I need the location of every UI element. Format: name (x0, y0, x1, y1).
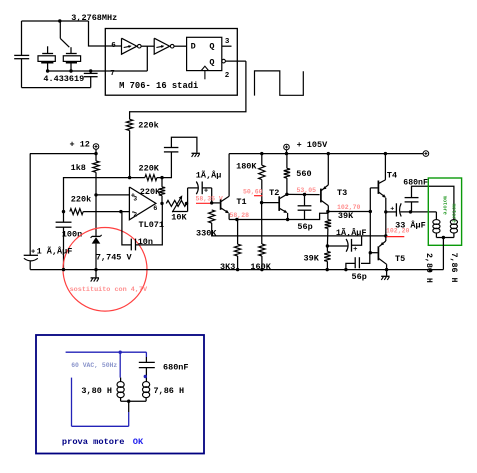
resistor R9 180K (261, 154, 263, 166)
power terminal top right (423, 151, 429, 157)
svg-text:10K: 10K (171, 212, 187, 222)
node - crystal select top node (58, 19, 61, 22)
transistor T5 PNP (385, 236, 387, 241)
wire - left rail (29, 154, 31, 256)
svg-text:prova motore: prova motore (62, 437, 125, 447)
red circle annotation (63, 227, 147, 311)
wire - windings common (435, 233, 437, 238)
svg-text:220K: 220K (139, 164, 160, 174)
capacitor C7 56p (304, 195, 306, 206)
svg-text:39K: 39K (338, 211, 354, 221)
ground - zener (94, 268, 97, 271)
svg-text:M 706- 16 stadi: M 706- 16 stadi (119, 81, 198, 91)
svg-text:58,28: 58,28 (230, 212, 250, 219)
svg-text:7,86 H: 7,86 H (449, 253, 458, 283)
svg-text:sostituito con 4,7V: sostituito con 4,7V (70, 286, 148, 294)
svg-text:2,80 H: 2,80 H (424, 253, 433, 283)
wire - T3 collector to base bus (328, 211, 370, 213)
wire - output into motor (435, 212, 437, 220)
svg-text:160K: 160K (250, 262, 271, 272)
capacitor C6 1uF coupling (188, 187, 199, 189)
svg-text:7,745 V: 7,745 V (96, 252, 133, 262)
op-amp U2 TL071 (129, 187, 156, 220)
node - AC feedback (326, 244, 329, 247)
wire - +12 to left rail (30, 153, 96, 155)
node - 56p tap (303, 193, 306, 196)
capacitor C2 load (right) (90, 71, 92, 73)
capacitor C3 to ground (164, 151, 179, 153)
wire - T5 collector to ground (386, 264, 388, 269)
switch S1 crystal selector (59, 21, 61, 38)
wire - test box top (66, 351, 147, 353)
svg-text:560: 560 (296, 169, 311, 179)
node - T1 base (210, 201, 213, 204)
svg-text:58,35 V: 58,35 V (196, 195, 223, 202)
wire - divider to 160K (261, 203, 263, 244)
svg-text:+: + (204, 188, 208, 196)
wire - cap to winding (145, 368, 147, 382)
node - plus input bias (94, 193, 97, 196)
clock input caret (201, 66, 208, 70)
node N2 (160, 176, 163, 179)
wire - cap branch down (145, 352, 147, 357)
svg-text:D: D (191, 41, 196, 51)
svg-text:3,80 H: 3,80 H (81, 386, 112, 396)
wire - N1 west then down (64, 178, 145, 212)
pin 2 Qbar output bubble (222, 59, 226, 63)
wire - join to bottom (128, 401, 130, 412)
svg-text:56p: 56p (297, 222, 312, 232)
wire - C3 top to chassis ground (171, 137, 197, 153)
svg-text:TL071: TL071 (139, 220, 165, 230)
svg-text:680nF: 680nF (163, 363, 189, 373)
inverter U1a (122, 38, 137, 54)
node - test top (119, 351, 122, 354)
square wave symbol (255, 71, 304, 96)
capacitor C1 (left) (21, 21, 23, 55)
resistor R1 220k vertical (126, 119, 132, 130)
power terminal +105V (284, 144, 290, 150)
wire - R3 to op-amp minus input (83, 211, 129, 213)
svg-text:100n: 100n (62, 229, 82, 239)
wire - T4 emitter output line (385, 198, 387, 236)
svg-text:7,86 H: 7,86 H (154, 386, 185, 396)
capacitor C9 33uF output coupling (386, 211, 396, 213)
svg-text:3: 3 (133, 195, 137, 202)
red underline T1 base (196, 202, 212, 204)
wire - 10n to minus input (122, 212, 131, 245)
inductor L3 test winding 7,86H (143, 382, 150, 388)
inductor L2 motor winding 7,86H (450, 220, 457, 225)
transistor T4 (384, 154, 386, 180)
node - op-amp output (160, 202, 163, 205)
svg-text:+: + (353, 246, 357, 254)
svg-text:6: 6 (111, 42, 116, 50)
wire - oscillator bottom return (22, 87, 91, 89)
svg-text:10n: 10n (138, 237, 153, 247)
svg-text:+: + (31, 248, 35, 256)
capacitor C13 680nF test (139, 361, 155, 363)
red underline output node (386, 236, 404, 238)
svg-text:3,2768MHz: 3,2768MHz (71, 13, 117, 23)
node - 22uF tap (384, 210, 387, 213)
node - T3 collector (326, 210, 329, 213)
wire - oscillator top rail 3.2768MHz node (22, 20, 89, 22)
capacitor C8 1uF feedback (327, 245, 348, 247)
capacitor C4 100n (63, 212, 65, 223)
svg-text:Q: Q (209, 58, 214, 68)
node - T2 base (260, 201, 263, 204)
svg-text:180K: 180K (236, 161, 257, 171)
resistor R11 560 (286, 154, 288, 169)
capacitor C12 1uF electrolytic left (24, 254, 38, 256)
crystal X1 4.433619 (left) (47, 46, 49, 53)
wire - base bus vertical (369, 188, 371, 253)
svg-text:220k: 220k (138, 120, 158, 130)
wire - left winding top (119, 352, 121, 377)
transistor T3 PNP (320, 189, 322, 203)
green box motore (428, 178, 461, 245)
wire - motor return to ground rail (442, 238, 444, 270)
svg-text:T1: T1 (236, 197, 246, 207)
svg-text:102,70: 102,70 (337, 204, 361, 211)
svg-text:Q: Q (209, 41, 214, 51)
wire - pin2 to 220k resistor (130, 61, 246, 119)
capacitor C5 10n (135, 239, 137, 251)
IC U1 box M 706- 16 stadi (105, 29, 237, 96)
zener diode D1 7,745V (92, 235, 100, 237)
wire - pin 2 output (225, 60, 246, 62)
resistor R10 160K (259, 244, 265, 256)
resistor R7 330K (209, 210, 215, 223)
wire - node to M706 pin 6 (89, 21, 122, 46)
wire - T1 collector to rail (228, 154, 230, 197)
crystal X2 3.2768 (right) (70, 47, 72, 53)
wire - T2 collector to T3 base (287, 193, 320, 195)
transistor T1 (212, 202, 220, 204)
svg-text:+ 105V: + 105V (297, 140, 329, 150)
wire - test left branch (71, 378, 73, 427)
svg-text:+ 12: + 12 (70, 140, 90, 150)
svg-text:T4: T4 (387, 171, 397, 181)
svg-text:2: 2 (133, 211, 137, 218)
node N1 (128, 176, 131, 179)
wire - 39K to 1uF node (326, 228, 329, 246)
svg-text:1 Ã‚ÂµF: 1 Ã‚ÂµF (37, 245, 73, 256)
node - output feedback (384, 234, 387, 237)
svg-text:60 VAC, 50Hz: 60 VAC, 50Hz (71, 362, 117, 369)
wire - bottom ground rail (30, 269, 443, 271)
resistor R13 39K lower (326, 246, 328, 252)
wire - test bottom (72, 425, 129, 427)
node - T2 collector (285, 193, 288, 196)
potentiometer R6 10K (166, 200, 186, 206)
wire - 330K to long feedback wire (212, 223, 386, 236)
wire - terminal to 1k8 (95, 149, 97, 161)
power terminal +12 (93, 144, 99, 150)
inductor L1 motor winding 2,80H (433, 220, 440, 225)
wire - +105V top rail (229, 153, 423, 155)
pin 3 Q output stub (222, 45, 232, 47)
svg-text:4.433619: 4.433619 (43, 74, 84, 84)
capacitor C10 56p compensation (361, 253, 370, 264)
svg-text:3K3: 3K3 (220, 262, 235, 272)
wire - inverter2 out to D input (174, 45, 187, 47)
wire - crystals common to pin 7 (48, 70, 148, 72)
inverter U1b (154, 38, 170, 54)
node - 220k left junction (62, 210, 65, 213)
wire - 160K to ground rail (261, 256, 263, 270)
svg-text:2: 2 (225, 72, 230, 80)
svg-text:motore: motore (442, 196, 448, 215)
wire - output down to 10n (136, 203, 163, 245)
resistor R8 3K3 (237, 220, 239, 245)
wire - emitter bus (229, 212, 328, 220)
svg-text:OK: OK (133, 437, 144, 447)
wire - feedback to pin 7 (146, 46, 148, 71)
resistor R12 39K upper (327, 212, 329, 220)
red underline T2 base (254, 195, 262, 197)
svg-text:220k: 220k (71, 194, 91, 204)
svg-text:1k8: 1k8 (71, 163, 86, 173)
wire - 1k8 to plus input node (95, 172, 97, 236)
resistor R3 220k horizontal to inverting input (70, 209, 83, 215)
svg-text:+: + (390, 205, 394, 213)
svg-text:39K: 39K (304, 254, 320, 264)
node - 10n tap (119, 210, 122, 213)
svg-text:330K: 330K (196, 229, 217, 239)
wire - N2 to RC cap riser (157, 152, 172, 178)
wire - 39K lower to rail (326, 261, 328, 269)
wire - T1 emitter to bus (228, 213, 230, 219)
svg-text:7: 7 (110, 70, 115, 78)
svg-text:6: 6 (153, 205, 157, 213)
resistor R2 220K horizontal (145, 175, 157, 181)
svg-text:53,05: 53,05 (297, 187, 317, 194)
resistor R5 220K feedback vertical (161, 178, 163, 187)
svg-text:3: 3 (225, 38, 230, 46)
test box border (36, 335, 204, 454)
resistor R4 1k8 (93, 161, 99, 172)
transistor T2 (262, 202, 279, 204)
svg-text:1Ã‚ÂµF: 1Ã‚ÂµF (336, 227, 367, 238)
svg-text:T5: T5 (395, 254, 405, 264)
svg-text:102,20: 102,20 (386, 228, 410, 235)
ground - chassis near C3 (192, 152, 200, 154)
wire - windings bottom join (120, 397, 122, 401)
wire - inverter1 out to inverter2 in (141, 45, 154, 47)
wire - to op-amp plus input (96, 194, 129, 196)
ground - T5 (381, 275, 389, 277)
svg-text:1Ã‚Âµ: 1Ã‚Âµ (196, 170, 222, 181)
svg-text:56p: 56p (352, 272, 367, 282)
flip-flop U1c D-Q box (187, 37, 222, 70)
svg-text:220K: 220K (140, 187, 161, 197)
inductor L4 test winding 3,80H (117, 382, 124, 388)
wire - R1 to node N1 (129, 131, 131, 178)
svg-text:T2: T2 (269, 188, 279, 198)
svg-text:50,60: 50,60 (243, 188, 263, 195)
svg-text:T3: T3 (337, 188, 347, 198)
